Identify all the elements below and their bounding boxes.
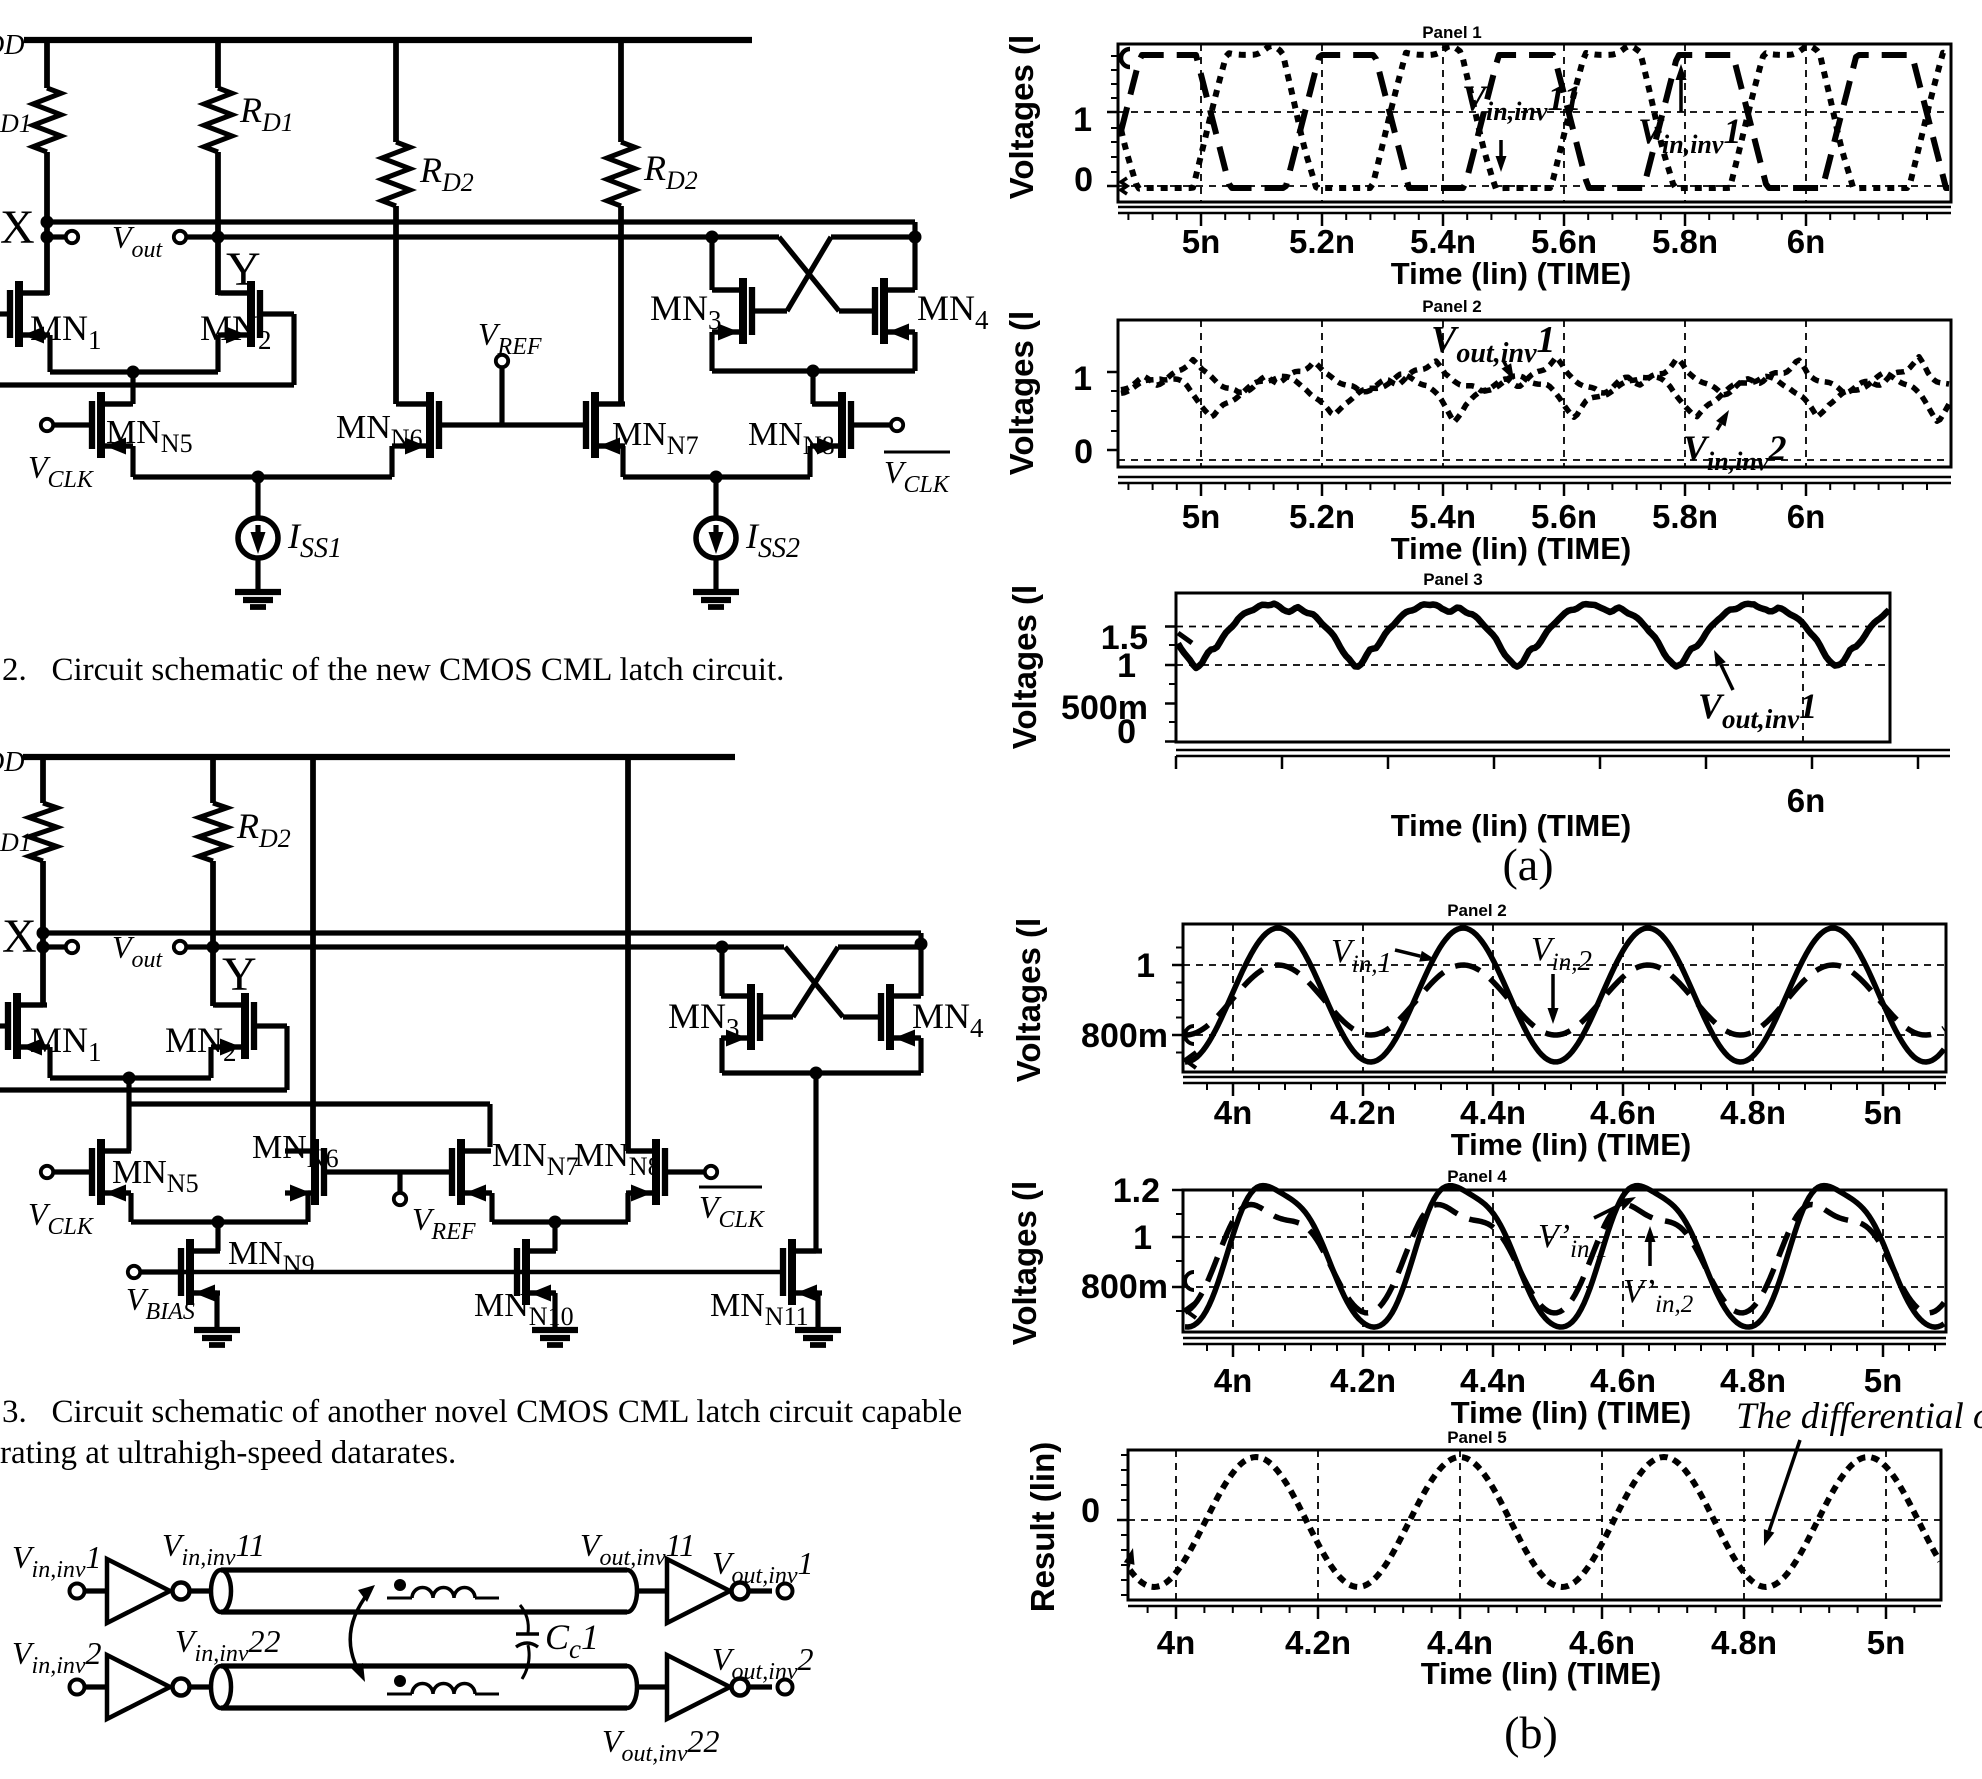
svg-text:1: 1 <box>1073 360 1092 398</box>
svg-text:800m: 800m <box>1081 1268 1168 1306</box>
svg-text:5n: 5n <box>1182 498 1221 535</box>
svg-text:4.8n: 4.8n <box>1720 1362 1786 1399</box>
svg-text:4.8n: 4.8n <box>1720 1094 1786 1131</box>
svg-text:rating at ultrahigh-speed data: rating at ultrahigh-speed datarates. <box>0 1435 456 1471</box>
svg-text:5.6n: 5.6n <box>1531 498 1597 535</box>
svg-text:4n: 4n <box>1214 1094 1253 1131</box>
svg-text:0: 0 <box>1117 713 1136 751</box>
svg-text:1: 1 <box>1117 647 1136 685</box>
svg-text:4.2n: 4.2n <box>1285 1624 1351 1661</box>
svg-text:5n: 5n <box>1867 1624 1906 1661</box>
svg-text:Time (lin) (TIME): Time (lin) (TIME) <box>1391 256 1632 291</box>
svg-text:Voltages (l: Voltages (l <box>1006 585 1043 749</box>
svg-text:6n: 6n <box>1787 223 1826 260</box>
svg-text:Time (lin) (TIME): Time (lin) (TIME) <box>1451 1395 1692 1430</box>
svg-text:3. Circuit schematic of anot: 3. Circuit schematic of another novel CM… <box>2 1394 962 1430</box>
svg-text:Voltages (l: Voltages (l <box>1006 1181 1043 1345</box>
svg-text:1: 1 <box>1136 947 1155 985</box>
svg-text:2. Circuit schematic of the: 2. Circuit schematic of the new CMOS CML… <box>2 652 784 688</box>
svg-text:4.6n: 4.6n <box>1590 1094 1656 1131</box>
svg-text:5.8n: 5.8n <box>1652 498 1718 535</box>
svg-text:5.4n: 5.4n <box>1410 498 1476 535</box>
svg-text:Time (lin) (TIME): Time (lin) (TIME) <box>1391 531 1632 566</box>
svg-text:6n: 6n <box>1787 782 1826 819</box>
svg-text:0: 0 <box>1081 1492 1100 1530</box>
svg-text:0: 0 <box>1074 161 1093 199</box>
svg-text:The differential ou: The differential ou <box>1736 1396 1982 1437</box>
svg-text:0: 0 <box>1074 433 1093 471</box>
svg-text:4.2n: 4.2n <box>1330 1362 1396 1399</box>
svg-text:X: X <box>0 201 35 254</box>
svg-text:Voltages (l: Voltages (l <box>1003 311 1040 475</box>
svg-text:4n: 4n <box>1157 1624 1196 1661</box>
svg-text:4.2n: 4.2n <box>1330 1094 1396 1131</box>
svg-text:Result (lin): Result (lin) <box>1024 1442 1061 1613</box>
svg-text:5.4n: 5.4n <box>1410 223 1476 260</box>
svg-text:D1: D1 <box>0 828 32 857</box>
svg-text:5.2n: 5.2n <box>1289 498 1355 535</box>
svg-text:Voltages (l: Voltages (l <box>1010 918 1047 1082</box>
svg-text:Panel 2: Panel 2 <box>1447 901 1507 920</box>
svg-text:6n: 6n <box>1787 498 1826 535</box>
svg-text:Voltages (l: Voltages (l <box>1003 35 1040 199</box>
svg-text:5.2n: 5.2n <box>1289 223 1355 260</box>
svg-text:800m: 800m <box>1081 1017 1168 1055</box>
svg-text:Panel 5: Panel 5 <box>1447 1428 1507 1447</box>
svg-text:4n: 4n <box>1214 1362 1253 1399</box>
svg-text:4.4n: 4.4n <box>1460 1094 1526 1131</box>
svg-text:1: 1 <box>1073 101 1092 139</box>
svg-text:1.2: 1.2 <box>1113 1172 1160 1210</box>
svg-text:Time (lin) (TIME): Time (lin) (TIME) <box>1421 1656 1662 1691</box>
svg-text:4.4n: 4.4n <box>1460 1362 1526 1399</box>
svg-text:Y: Y <box>222 948 257 1001</box>
svg-text:Y: Y <box>226 243 261 296</box>
svg-text:4.6n: 4.6n <box>1590 1362 1656 1399</box>
svg-text:Panel 1: Panel 1 <box>1422 23 1482 42</box>
svg-text:DD: DD <box>0 747 24 778</box>
svg-text:5.8n: 5.8n <box>1652 223 1718 260</box>
svg-text:D1: D1 <box>0 109 32 138</box>
svg-text:Panel 4: Panel 4 <box>1447 1167 1507 1186</box>
svg-text:Time (lin) (TIME): Time (lin) (TIME) <box>1451 1127 1692 1162</box>
svg-text:(b): (b) <box>1504 1707 1558 1758</box>
svg-text:5n: 5n <box>1864 1094 1903 1131</box>
svg-text:DD: DD <box>0 30 24 61</box>
svg-text:1: 1 <box>1133 1219 1152 1257</box>
svg-text:4.8n: 4.8n <box>1711 1624 1777 1661</box>
svg-text:5n: 5n <box>1864 1362 1903 1399</box>
svg-text:Time (lin) (TIME): Time (lin) (TIME) <box>1391 808 1632 843</box>
svg-text:Panel 3: Panel 3 <box>1423 570 1483 589</box>
svg-text:(a): (a) <box>1502 839 1553 890</box>
svg-text:5.6n: 5.6n <box>1531 223 1597 260</box>
svg-text:X: X <box>2 910 37 963</box>
svg-text:5n: 5n <box>1182 223 1221 260</box>
svg-text:Panel 2: Panel 2 <box>1422 297 1482 316</box>
